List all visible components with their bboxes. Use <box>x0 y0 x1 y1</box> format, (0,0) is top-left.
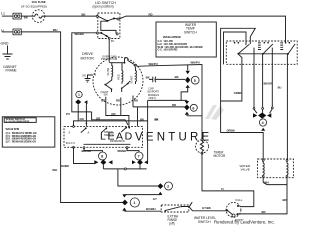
svg-text:WASH/ SPIN: WASH/ SPIN <box>6 128 20 131</box>
svg-text:RD/BK: RD/BK <box>118 149 127 153</box>
extra rinse switch <box>161 205 189 212</box>
jumper A <box>221 28 256 133</box>
svg-text:RD: RD <box>116 99 120 103</box>
svg-text:BU: BU <box>278 86 282 90</box>
svg-text:SW: SW <box>104 93 109 97</box>
connector 3 <box>76 91 82 97</box>
svg-text:GN: GN <box>80 117 84 121</box>
svg-text:2: 2 <box>167 185 169 189</box>
timer motor <box>196 140 209 153</box>
net below clusters 7/8 <box>103 165 146 169</box>
svg-text:BK: BK <box>24 16 28 20</box>
svg-text:DRIVE: DRIVE <box>82 52 94 56</box>
WH/PU wire motor to right <box>138 65 203 67</box>
wire WH/BK net to speed switch <box>85 103 87 126</box>
speed switch legend box <box>2 117 55 147</box>
svg-text:S- SLOW (WASH/SPIN): S- SLOW (WASH/SPIN) <box>6 120 30 123</box>
svg-text:RD: RD <box>134 99 138 103</box>
svg-text:ONLY): ONLY) <box>149 96 157 100</box>
svg-text:WH: WH <box>52 168 57 172</box>
svg-text:YL: YL <box>221 187 225 191</box>
svg-text:SWITCH: SWITCH <box>198 220 211 224</box>
wire zigzag trio5 to trio6 and BK branch <box>181 88 188 101</box>
svg-text:WH/BK: WH/BK <box>61 164 70 168</box>
svg-text:(/) F : RD/WH-BK,RD/BK-GN: (/) F : RD/WH-BK,RD/BK-GN <box>6 141 37 143</box>
svg-text:WH/PU: WH/PU <box>149 62 158 66</box>
svg-text:(IF SO EQUIPPED): (IF SO EQUIPPED) <box>21 4 47 8</box>
svg-text:RED: RED <box>117 74 121 80</box>
svg-text:WH: WH <box>53 28 58 32</box>
water temp switch legend box <box>156 22 216 57</box>
svg-text:RINSE/SPIN: RINSE/SPIN <box>110 139 125 143</box>
svg-text:7: 7 <box>138 155 140 159</box>
contacts group1 <box>234 42 236 44</box>
svg-text:BK: BK <box>155 117 159 121</box>
wires below contact box <box>253 48 255 108</box>
connector 7 <box>127 149 139 153</box>
svg-text:B A D C: B A D C <box>66 141 75 145</box>
svg-text:6: 6 <box>192 106 194 110</box>
svg-text:RD: RD <box>149 13 153 17</box>
svg-text:S: S <box>69 131 71 135</box>
wire WH right then down left spine <box>21 32 122 203</box>
svg-text:(off): (off) <box>169 221 175 225</box>
YL wire timer to water level full <box>202 153 254 206</box>
svg-text:RD: RD <box>172 103 176 107</box>
svg-text:SWITCH: SWITCH <box>184 30 197 34</box>
svg-text:(open position): (open position) <box>93 5 114 9</box>
connector 6 <box>133 106 185 108</box>
svg-text:VENTURE: VENTURE <box>135 132 212 144</box>
BR wire inside box down <box>287 54 289 55</box>
svg-text:WH/BK: WH/BK <box>75 32 84 36</box>
svg-text:8: 8 <box>101 155 103 159</box>
svg-text:VALVE: VALVE <box>241 168 250 172</box>
svg-text:4: 4 <box>262 121 264 125</box>
overload protector switch <box>109 62 124 64</box>
svg-text:5: 5 <box>194 79 196 83</box>
WH/BK wire from speed switch to cluster8 <box>74 147 95 163</box>
svg-text:YL: YL <box>111 39 115 43</box>
wire YL lid switch to motor <box>108 39 110 62</box>
wire BK to fuse <box>21 15 32 17</box>
motor bottom wires OR RD RD <box>106 97 122 116</box>
svg-text:3: 3 <box>78 93 80 97</box>
connector 1 <box>122 194 126 197</box>
svg-text:OR: OR <box>111 112 115 116</box>
svg-text:GND: GND <box>1 42 9 46</box>
GN wire above speed switch <box>74 121 148 127</box>
svg-text:L1: L1 <box>1 12 5 16</box>
svg-text:OR: OR <box>96 116 100 120</box>
connector P2 (N inline) <box>13 29 21 35</box>
svg-text:FULL: FULL <box>236 198 243 202</box>
svg-text:SLOW: SLOW <box>106 67 110 75</box>
wire L1 to connector <box>2 15 13 17</box>
connector 8 <box>84 149 103 153</box>
speed switch dashed box <box>64 126 143 147</box>
svg-text:1: 1 <box>133 201 135 205</box>
svg-text:START: START <box>130 75 134 84</box>
svg-text:BR: BR <box>283 198 287 202</box>
svg-text:WH/PU: WH/PU <box>191 60 200 64</box>
svg-text:A: A <box>88 131 90 135</box>
connector 5 <box>187 65 189 71</box>
svg-text:(/) D : BK/WH-RD/RD/BK-GN: (/) D : BK/WH-RD/RD/BK-GN <box>6 139 37 141</box>
svg-text:OR/BK: OR/BK <box>234 91 242 95</box>
svg-text:BK/OR: BK/OR <box>264 82 272 86</box>
wire fuse to lid switch (BK) <box>45 15 98 17</box>
svg-text:10A FUSE: 10A FUSE <box>32 0 46 4</box>
svg-text:(/) A : BK/WH-PU/ RD/BK-GN: (/) A : BK/WH-PU/ RD/BK-GN <box>6 132 37 135</box>
svg-text:BK: BK <box>82 12 86 16</box>
svg-text:BK: BK <box>175 75 179 79</box>
svg-text:GY: GY <box>153 197 157 201</box>
svg-text:WH: WH <box>264 180 269 184</box>
wire WH/BK from lid switch to left <box>72 33 96 112</box>
svg-text:OR/BK: OR/BK <box>227 128 235 132</box>
wire RD lid switch to water temp switch <box>119 16 286 41</box>
svg-text:C-C : BU/OR-RD: C-C : BU/OR-RD <box>158 48 178 52</box>
svg-text:(/) S : BK/WH-GN/RD/BK-GN: (/) S : BK/WH-GN/RD/BK-GN <box>6 136 37 138</box>
svg-text:PROTECTOR: PROTECTOR <box>101 57 117 61</box>
OR/BK wire to water valve <box>221 133 264 160</box>
svg-text:MOTOR: MOTOR <box>214 154 227 158</box>
OR/BK wire from contact box down-left <box>221 54 242 101</box>
BR long vertical right <box>286 54 288 159</box>
wire N to connector <box>2 31 13 33</box>
watermark <box>100 105 224 144</box>
jumper B <box>224 32 247 64</box>
svg-text:GY/BK: GY/BK <box>202 206 211 210</box>
contacts group2 <box>258 43 261 50</box>
svg-text:BU/WH: BU/WH <box>146 207 155 211</box>
GY wire connector1 to connector2 <box>124 194 160 196</box>
BR wire valve to water level <box>238 177 287 214</box>
contacts group3 <box>280 43 283 50</box>
svg-text:BR/WH: BR/WH <box>82 149 91 153</box>
GY/BK wire to water level switch <box>193 210 228 212</box>
svg-text:Rendered by LeadVenture, Inc.: Rendered by LeadVenture, Inc. <box>214 220 275 225</box>
water temp switch contact box <box>226 41 297 64</box>
svg-text:BR: BR <box>262 210 266 214</box>
svg-text:FRAME: FRAME <box>6 69 17 73</box>
WH wire valve bottom <box>263 177 287 184</box>
water level switch <box>226 202 241 217</box>
svg-text:B: B <box>95 73 97 77</box>
BU/WH wire connector1 to extra rinse <box>124 210 161 213</box>
connector 2 <box>158 183 164 189</box>
svg-text:OR: OR <box>101 99 105 103</box>
water valve <box>258 159 294 178</box>
svg-text:WASH-RINSE: WASH-RINSE <box>163 35 181 39</box>
wire WH/PU down to timer <box>201 64 203 139</box>
svg-text:BK: BK <box>140 118 144 122</box>
svg-text:PU: PU <box>66 112 70 116</box>
svg-text:MOTOR: MOTOR <box>81 57 95 61</box>
svg-text:SWITCH: SWITCH <box>104 133 114 137</box>
connector 4 cluster <box>253 113 257 117</box>
connector P1 (L1 inline) <box>13 13 21 19</box>
svg-text:GN: GN <box>82 74 86 78</box>
